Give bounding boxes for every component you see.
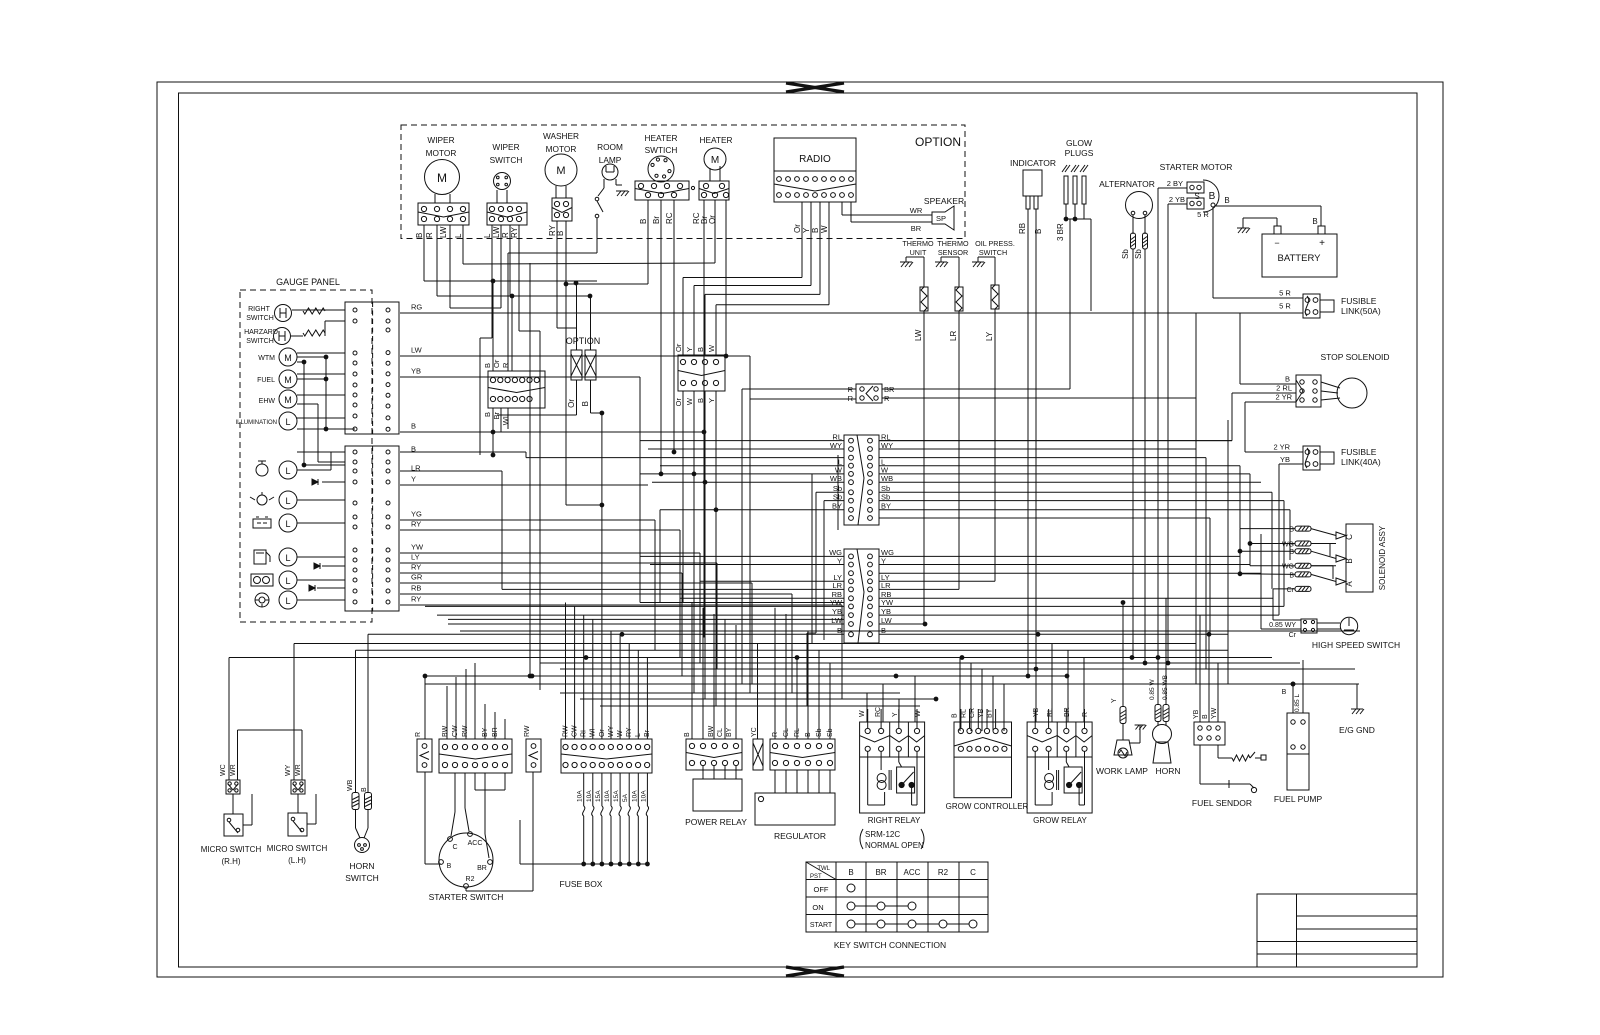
harness connector wires right lower	[879, 556, 1284, 634]
svg-text:YB: YB	[978, 708, 985, 718]
svg-text:WIPER: WIPER	[427, 135, 454, 145]
svg-text:B: B	[952, 713, 959, 718]
svg-text:Y: Y	[881, 556, 886, 565]
svg-text:YG: YG	[411, 510, 422, 519]
svg-text:HORN: HORN	[349, 861, 374, 871]
svg-text:ILLUMINATION: ILLUMINATION	[235, 420, 277, 426]
svg-text:RL: RL	[960, 709, 967, 718]
wire indicator drops	[1028, 209, 1036, 676]
fuse box fuses	[520, 773, 649, 889]
svg-text:MICRO SWITCH: MICRO SWITCH	[267, 844, 328, 853]
svg-text:PLUGS: PLUGS	[1065, 148, 1094, 158]
svg-text:2 YB: 2 YB	[1169, 195, 1185, 204]
svg-text:M: M	[556, 165, 565, 177]
svg-text:UNIT: UNIT	[910, 248, 927, 257]
svg-text:ACC: ACC	[468, 840, 483, 847]
micro switch LH	[267, 644, 328, 866]
solenoid assy	[1336, 524, 1387, 592]
svg-text:POWER RELAY: POWER RELAY	[685, 817, 747, 827]
gauge connector strip upper	[345, 302, 399, 434]
svg-text:BR: BR	[875, 868, 886, 877]
gauge internal wiring	[262, 310, 355, 600]
svg-text:FUEL SENDOR: FUEL SENDOR	[1192, 798, 1252, 808]
left bus drops	[502, 356, 844, 699]
connector block center-left	[483, 359, 545, 425]
svg-text:FUSIBLE: FUSIBLE	[1341, 447, 1377, 457]
power relay box	[685, 766, 747, 827]
wire stop solenoid rl	[879, 393, 1296, 441]
svg-text:LR: LR	[881, 581, 891, 590]
svg-text:B: B	[1282, 689, 1287, 696]
wire r right	[882, 313, 1196, 398]
svg-text:WR: WR	[230, 764, 237, 776]
harness connector wires left upper	[640, 441, 844, 706]
top center alignment mark	[786, 83, 844, 92]
radio U-RADIO	[774, 138, 856, 233]
svg-text:L: L	[454, 233, 463, 238]
fuse YC	[751, 727, 763, 770]
right relay	[859, 707, 925, 850]
heater switch	[635, 133, 695, 224]
grow relay	[1027, 707, 1092, 825]
svg-text:3 BR: 3 BR	[1056, 223, 1065, 241]
svg-text:L: L	[285, 496, 290, 506]
illumination lamp	[235, 412, 297, 430]
wire stop solenoid b	[1240, 313, 1296, 384]
horn switch	[345, 634, 379, 883]
svg-text:YB: YB	[832, 607, 842, 616]
svg-text:B: B	[415, 233, 424, 238]
battery charge lamp	[253, 514, 297, 532]
connector R starter	[415, 732, 432, 772]
fusible link 50A	[1279, 289, 1381, 319]
svg-text:WR: WR	[910, 206, 923, 215]
key switch connection table	[806, 862, 988, 950]
svg-text:WIPER: WIPER	[492, 142, 519, 152]
wire starter motor B to battery	[1216, 206, 1321, 226]
svg-text:WB: WB	[830, 474, 842, 483]
svg-text:WR: WR	[295, 764, 302, 776]
wire center-left connector stubs	[491, 283, 512, 457]
svg-text:CL: CL	[717, 728, 724, 737]
svg-text:M: M	[437, 171, 447, 185]
svg-text:C: C	[452, 844, 457, 851]
horn	[1149, 598, 1181, 776]
svg-text:SWTICH: SWTICH	[645, 145, 678, 155]
svg-text:+: +	[1319, 238, 1325, 249]
svg-text:EHW: EHW	[259, 398, 276, 405]
svg-text:M: M	[284, 395, 292, 405]
svg-text:Y: Y	[837, 556, 842, 565]
svg-text:GR: GR	[411, 573, 423, 582]
svg-text:Sb: Sb	[881, 492, 890, 501]
svg-text:10A: 10A	[604, 790, 611, 802]
wire fusible40 yb	[879, 464, 1303, 615]
svg-text:R2: R2	[938, 868, 949, 877]
svg-text:B: B	[1345, 558, 1354, 563]
svg-text:R: R	[425, 232, 434, 238]
svg-text:LW: LW	[439, 226, 448, 238]
svg-text:W: W	[820, 225, 829, 233]
svg-text:LW: LW	[411, 346, 423, 355]
wheel lamp	[255, 591, 297, 609]
svg-text:RC: RC	[875, 707, 882, 717]
svg-text:WY: WY	[830, 441, 842, 450]
svg-text:B: B	[639, 219, 648, 224]
svg-text:Y: Y	[411, 475, 416, 484]
svg-text:WTM: WTM	[258, 355, 275, 362]
svg-text:0.85 WY: 0.85 WY	[1269, 622, 1296, 629]
harness connector lower	[829, 548, 894, 643]
starter motor	[1160, 162, 1233, 219]
svg-text:RY: RY	[510, 226, 519, 238]
svg-text:START: START	[810, 922, 833, 929]
svg-text:OPTION: OPTION	[566, 336, 601, 346]
wire fusible40 yr	[1245, 402, 1303, 452]
svg-text:WY: WY	[285, 764, 292, 776]
svg-text:YB: YB	[1193, 709, 1200, 719]
fuel level lamp	[254, 548, 297, 566]
fuel pump	[1274, 660, 1323, 804]
svg-text:C: C	[1345, 534, 1354, 540]
wiper motor	[415, 135, 469, 238]
wire starter motor 5R to fusible link	[1213, 207, 1303, 298]
svg-text:Y: Y	[707, 398, 716, 403]
harness connector upper	[830, 432, 893, 525]
svg-text:FUEL: FUEL	[257, 377, 275, 384]
svg-text:BATTERY: BATTERY	[1278, 253, 1322, 264]
starter switch	[429, 832, 504, 902]
wire top components drop bundle	[424, 200, 728, 690]
wire micro switches WR link	[238, 729, 303, 731]
bottom center alignment mark	[786, 967, 844, 976]
svg-text:BY: BY	[832, 502, 842, 511]
connector R-BR small	[848, 384, 895, 403]
svg-text:SWITCH: SWITCH	[246, 315, 274, 322]
svg-text:2 RL: 2 RL	[1276, 384, 1292, 393]
svg-text:LAMP: LAMP	[599, 155, 622, 165]
svg-text:MOTOR: MOTOR	[546, 144, 577, 154]
solenoid fuses	[1282, 526, 1336, 594]
svg-text:FUSE BOX: FUSE BOX	[560, 879, 603, 889]
svg-text:WB: WB	[881, 474, 893, 483]
svg-text:BY: BY	[881, 502, 891, 511]
wiper switch	[483, 142, 527, 238]
svg-text:GAUGE PANEL: GAUGE PANEL	[276, 277, 340, 287]
svg-text:E/G GND: E/G GND	[1339, 725, 1375, 735]
svg-text:BY: BY	[726, 727, 733, 737]
svg-text:LW: LW	[492, 226, 501, 238]
starter switch connector	[439, 725, 512, 773]
left bus wires	[400, 313, 1303, 605]
svg-text:RB: RB	[1018, 223, 1027, 234]
svg-text:W: W	[859, 710, 866, 717]
svg-text:Cr: Cr	[1289, 632, 1297, 639]
dashed OPTION enclosure	[401, 125, 965, 239]
svg-text:OFF: OFF	[814, 885, 829, 894]
svg-text:GROW RELAY: GROW RELAY	[1033, 816, 1087, 825]
diode 2	[314, 563, 320, 569]
svg-text:WC: WC	[220, 764, 227, 776]
svg-text:HORN: HORN	[1155, 766, 1180, 776]
right switch	[246, 305, 325, 323]
svg-text:STOP SOLENOID: STOP SOLENOID	[1320, 352, 1389, 362]
room lamp	[595, 142, 629, 218]
svg-text:Y: Y	[802, 227, 811, 233]
svg-text:L: L	[285, 596, 290, 606]
battery	[1262, 217, 1337, 277]
svg-text:SPEAKER: SPEAKER	[924, 196, 964, 206]
svg-text:CR: CR	[969, 708, 976, 718]
svg-text:B: B	[1202, 714, 1209, 719]
gauge panel enclosure	[240, 277, 372, 622]
svg-text:THERMO: THERMO	[902, 239, 934, 248]
svg-text:RY: RY	[411, 595, 421, 604]
svg-text:−: −	[1274, 238, 1279, 248]
wire bus upstream stubs	[0, 0, 1, 1]
battery ground	[1237, 218, 1277, 233]
svg-text:L: L	[285, 466, 290, 476]
svg-text:FUSIBLE: FUSIBLE	[1341, 296, 1377, 306]
wire r-br left	[742, 389, 856, 693]
svg-text:LY: LY	[411, 553, 420, 562]
svg-text:B: B	[684, 732, 691, 737]
svg-text:Or: Or	[599, 729, 606, 737]
svg-text:YB: YB	[1280, 455, 1290, 464]
svg-text:YB: YB	[411, 367, 421, 376]
svg-text:B: B	[1224, 196, 1229, 205]
svg-text:(R.H): (R.H)	[221, 857, 240, 866]
svg-text:HEATER: HEATER	[699, 135, 732, 145]
fuel sendor	[1192, 707, 1266, 808]
svg-text:Or: Or	[674, 343, 683, 352]
svg-text:B: B	[1289, 572, 1294, 579]
svg-text:RIGHT RELAY: RIGHT RELAY	[868, 816, 921, 825]
svg-text:RB: RB	[411, 584, 421, 593]
svg-text:B: B	[811, 228, 820, 233]
svg-text:L: L	[483, 233, 492, 238]
middle bus junction dots	[530, 411, 1295, 701]
svg-text:R: R	[501, 232, 510, 238]
svg-text:M: M	[284, 375, 292, 385]
svg-text:INDICATOR: INDICATOR	[1010, 158, 1056, 168]
wires starter connector down	[451, 773, 505, 858]
connector block center-right	[674, 343, 725, 406]
svg-text:2 YR: 2 YR	[1275, 393, 1292, 402]
wire br to glowplugs	[882, 388, 1070, 390]
svg-text:L: L	[285, 519, 290, 529]
svg-text:B: B	[581, 401, 590, 406]
wires solenoid left	[1238, 529, 1295, 620]
diode 3	[309, 585, 315, 591]
svg-text:L: L	[285, 576, 290, 586]
svg-text:L: L	[285, 417, 290, 427]
svg-text:STARTER MOTOR: STARTER MOTOR	[1160, 162, 1233, 172]
svg-text:HEATER: HEATER	[644, 133, 677, 143]
svg-text:15A: 15A	[595, 790, 602, 802]
svg-text:HARZARD: HARZARD	[244, 329, 278, 336]
svg-text:Y: Y	[685, 347, 694, 352]
wire RW down to R2	[466, 772, 533, 891]
title block	[1257, 894, 1417, 967]
alternator	[1099, 179, 1155, 663]
svg-text:B: B	[848, 868, 853, 877]
svg-text:Sb: Sb	[1121, 249, 1130, 259]
svg-text:W: W	[707, 344, 716, 352]
glow indicator lamp	[251, 571, 297, 589]
wire radio drops	[683, 202, 829, 355]
svg-text:B: B	[1034, 229, 1043, 234]
engine ground E/G GND	[1339, 684, 1375, 735]
svg-text:LW: LW	[881, 616, 893, 625]
svg-text:MICRO SWITCH: MICRO SWITCH	[201, 845, 262, 854]
washer motor	[543, 131, 579, 236]
svg-text:PST: PST	[810, 874, 822, 880]
svg-text:BR: BR	[911, 224, 922, 233]
svg-text:B: B	[447, 863, 452, 870]
svg-text:Sb: Sb	[833, 492, 842, 501]
svg-text:RC: RC	[665, 212, 674, 224]
indicator	[1010, 158, 1056, 234]
regulator box	[755, 770, 835, 841]
svg-text:5 R: 5 R	[1197, 210, 1209, 219]
svg-text:5 R: 5 R	[1279, 289, 1291, 298]
svg-text:TWL: TWL	[817, 866, 830, 872]
svg-text:Y: Y	[892, 712, 899, 717]
svg-text:SWITCH: SWITCH	[246, 338, 274, 345]
svg-text:KEY SWITCH CONNECTION: KEY SWITCH CONNECTION	[834, 940, 946, 950]
harness connector wires left lower	[368, 556, 844, 634]
svg-text:WL: WL	[501, 414, 510, 425]
wire R conn	[423, 674, 441, 864]
gauge output wire labels	[411, 303, 424, 604]
svg-text:SP: SP	[936, 214, 946, 223]
svg-text:MOTOR: MOTOR	[426, 148, 457, 158]
svg-text:SWITCH: SWITCH	[345, 873, 379, 883]
svg-text:15A: 15A	[613, 790, 620, 802]
svg-text:RY: RY	[411, 563, 421, 572]
border inner frame	[179, 93, 1418, 967]
wtm gauge	[258, 348, 297, 366]
svg-text:RIGHT: RIGHT	[248, 306, 271, 313]
oil pressure switch	[972, 239, 1015, 581]
svg-text:RW: RW	[524, 725, 531, 737]
svg-text:BR: BR	[477, 865, 487, 872]
svg-text:B: B	[1285, 375, 1290, 384]
thermo unit	[900, 239, 934, 624]
svg-text:YW: YW	[881, 598, 894, 607]
svg-text:Or: Or	[708, 215, 717, 224]
regulator connector	[770, 728, 835, 770]
svg-text:ACC: ACC	[904, 868, 921, 877]
gauge connector strip lower	[345, 446, 399, 611]
svg-text:Or: Or	[793, 224, 802, 233]
svg-text:THERMO: THERMO	[937, 239, 969, 248]
svg-text:ALTERNATOR: ALTERNATOR	[1099, 179, 1155, 189]
svg-text:Or: Or	[674, 398, 683, 407]
svg-text:SWITCH: SWITCH	[979, 248, 1007, 257]
svg-text:RL: RL	[1047, 708, 1054, 717]
svg-text:B: B	[1209, 191, 1216, 202]
svg-text:10A: 10A	[577, 790, 584, 802]
svg-text:M: M	[711, 155, 719, 166]
svg-text:WB: WB	[347, 779, 354, 791]
svg-text:BW: BW	[442, 725, 449, 737]
svg-text:5A: 5A	[622, 793, 629, 802]
right area verticals	[1196, 398, 1290, 684]
svg-text:YB: YB	[881, 607, 891, 616]
coolant temp lamp	[256, 461, 297, 479]
svg-text:L: L	[285, 553, 290, 563]
svg-text:0.85 W: 0.85 W	[1149, 679, 1156, 700]
heater	[692, 135, 733, 224]
diode 1	[312, 479, 318, 485]
svg-text:NORMAL OPEN: NORMAL OPEN	[865, 841, 924, 850]
svg-text:W: W	[915, 710, 922, 717]
svg-text:R: R	[501, 362, 510, 368]
svg-text:WORK LAMP: WORK LAMP	[1096, 766, 1148, 776]
svg-text:LW: LW	[831, 616, 843, 625]
svg-text:SWITCH: SWITCH	[490, 155, 523, 165]
wire drops to bottom connectors	[447, 603, 1218, 740]
svg-text:M: M	[284, 353, 292, 363]
svg-text:SOLENOID ASSY: SOLENOID ASSY	[1378, 525, 1387, 590]
svg-text:B: B	[1312, 217, 1317, 226]
svg-text:10A: 10A	[586, 790, 593, 802]
svg-text:Cr: Cr	[1287, 587, 1295, 594]
connector RW starter	[524, 725, 541, 772]
svg-text:S: S	[1194, 192, 1199, 201]
svg-text:W: W	[685, 397, 694, 405]
svg-text:RY: RY	[411, 520, 421, 529]
option fuse pair	[497, 283, 604, 739]
svg-text:Sb: Sb	[1134, 249, 1143, 259]
wire starter motor leads	[1158, 188, 1187, 663]
svg-text:STARTER SWITCH: STARTER SWITCH	[429, 892, 504, 902]
ehw gauge	[259, 390, 297, 408]
svg-text:RG: RG	[411, 303, 422, 312]
svg-text:LR: LR	[832, 581, 842, 590]
wire radio to speaker	[910, 196, 964, 233]
svg-text:YC: YC	[751, 727, 758, 737]
fuel gauge	[257, 370, 297, 388]
svg-text:5 R: 5 R	[1279, 302, 1291, 311]
svg-text:0.85 L: 0.85 L	[1294, 694, 1301, 712]
svg-text:Br: Br	[652, 216, 661, 224]
oil pressure lamp	[250, 491, 297, 509]
svg-text:LINK(50A): LINK(50A)	[1341, 306, 1381, 316]
svg-text:GROW CONTROLLER: GROW CONTROLLER	[946, 802, 1029, 811]
harness connector wires right upper	[879, 441, 1290, 518]
svg-text:2 YR: 2 YR	[1273, 443, 1290, 452]
svg-text:HIGH SPEED SWITCH: HIGH SPEED SWITCH	[1312, 640, 1400, 650]
svg-text:SENSOR: SENSOR	[938, 248, 968, 257]
middle bus wires	[229, 603, 1360, 707]
svg-text:LW: LW	[914, 329, 923, 341]
svg-text:YW: YW	[411, 543, 424, 552]
svg-text:REGULATOR: REGULATOR	[774, 831, 826, 841]
svg-text:10A: 10A	[631, 790, 638, 802]
harzard switch	[244, 328, 325, 346]
thermo sensor	[935, 239, 969, 589]
svg-text:(L.H): (L.H)	[288, 856, 306, 865]
svg-text:WY: WY	[881, 441, 893, 450]
svg-text:C: C	[970, 868, 976, 877]
svg-text:B: B	[483, 363, 492, 368]
svg-text:B: B	[361, 787, 368, 792]
svg-text:LR: LR	[949, 331, 958, 341]
wire high speed left	[1261, 534, 1301, 629]
